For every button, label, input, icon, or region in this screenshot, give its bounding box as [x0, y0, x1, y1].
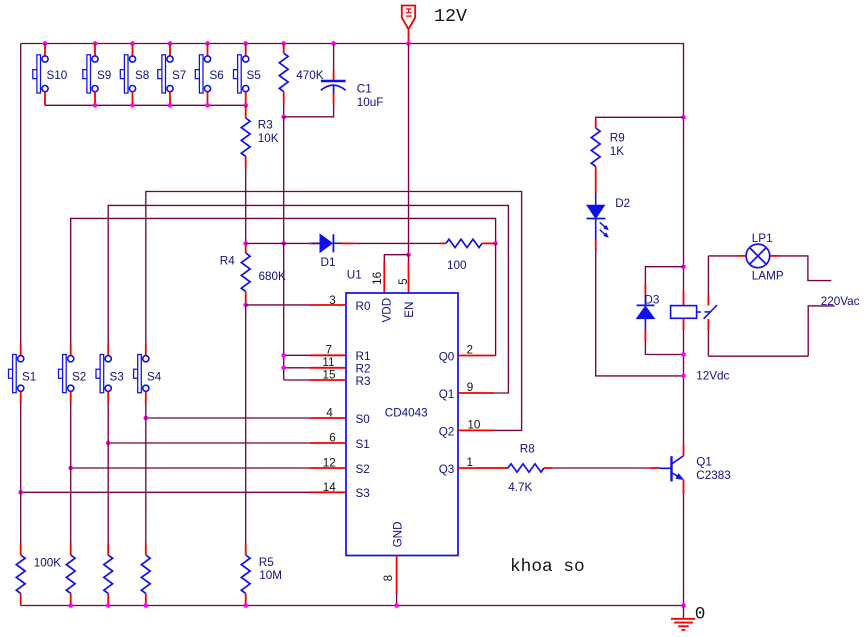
wire R4 to R5: [245, 305, 247, 543]
resistor R4: [241, 253, 250, 291]
svg-text:10K: 10K: [258, 132, 279, 145]
wire 470K to C1 node: [283, 103, 285, 117]
junction emitter at ground rail: [681, 603, 686, 608]
junction D3 branch top: [681, 264, 686, 269]
wire D3 bottom to relay bottom: [645, 342, 683, 355]
pin 12 S2 stub: [310, 467, 346, 469]
junction R1 branch: [281, 353, 286, 358]
pin S4 top: [145, 345, 147, 356]
wire supply node to EN pin: [408, 255, 410, 262]
pin D1 cathode: [342, 242, 354, 244]
junction S5 top at rail: [243, 41, 248, 46]
diode D1: [312, 234, 343, 252]
wire C1 bottom to 470K node: [284, 105, 334, 117]
wire bus S2-Q0: [71, 218, 496, 344]
pin S1 bottom: [20, 391, 22, 403]
svg-text:1K: 1K: [610, 145, 625, 158]
junction S8 top at rail: [130, 41, 135, 46]
pin R4 bottom: [245, 291, 247, 305]
svg-text:S3: S3: [110, 371, 124, 384]
svg-text:Q2: Q2: [439, 425, 455, 438]
wire S3 to S1 pin: [108, 442, 310, 444]
pin S3 top: [107, 345, 109, 356]
svg-text:Q1: Q1: [439, 388, 455, 401]
pin pulldown S2 top: [70, 543, 72, 555]
svg-text:R0: R0: [356, 300, 371, 313]
pushbutton switch S9: [83, 55, 98, 93]
wire right main vertical upper: [683, 44, 685, 291]
wire D2 down to 12Vdc node: [596, 250, 684, 376]
pushbutton switch S5: [234, 55, 249, 93]
resistor R9: [591, 128, 600, 166]
svg-text:R2: R2: [356, 363, 371, 376]
wire bus S3-Q1: [108, 205, 508, 393]
junction 12Vdc node: [681, 374, 686, 379]
pin pulldown S2 bottom: [70, 593, 72, 605]
junction pulldown S2 at rail: [68, 603, 73, 608]
svg-text:S4: S4: [147, 371, 162, 384]
svg-text:C2383: C2383: [696, 469, 730, 482]
junction C1 top at rail: [331, 41, 336, 46]
svg-text:S1: S1: [356, 438, 370, 451]
wire relay top to D3 top: [645, 267, 683, 283]
pin S10 top: [44, 44, 46, 56]
pushbutton switch S3: [96, 355, 111, 393]
pin relay coil bottom: [683, 318, 685, 330]
junction S7 bottom wire: [168, 103, 173, 108]
pin 470K bottom: [283, 92, 285, 103]
svg-text:100: 100: [447, 259, 467, 272]
pin 16 VDD: [383, 262, 385, 293]
LED D2: [587, 193, 609, 240]
wire bus node down to Q0: [494, 243, 496, 355]
svg-text:VDD: VDD: [381, 298, 394, 323]
pin D3 anode: [644, 330, 646, 342]
wire right main vertical mid (relay to Q1): [683, 330, 685, 444]
svg-text:R9: R9: [610, 132, 625, 145]
pin 8 GND stub: [396, 556, 398, 595]
pin S7 bottom: [169, 92, 171, 106]
resistor pulldown S4: [141, 555, 150, 593]
svg-text:3: 3: [329, 294, 336, 307]
resistor R5: [241, 555, 250, 593]
wire supply node to VDD pin: [384, 255, 408, 262]
svg-text:khoa so: khoa so: [510, 557, 585, 577]
pin S6 bottom: [207, 92, 209, 106]
wire lamp loop left lower: [707, 330, 709, 356]
svg-text:EN: EN: [403, 302, 416, 318]
pushbutton switch S10: [33, 55, 48, 93]
pin 1 Q3 stub: [458, 467, 494, 469]
junction S4 column at S0 wire: [143, 416, 148, 421]
capacitor C1: [321, 81, 346, 93]
wire R1 branch: [284, 354, 310, 356]
pin Q1 emitter: [683, 480, 685, 494]
svg-text:Q3: Q3: [439, 463, 455, 476]
pin pulldown S3 bottom: [107, 593, 109, 605]
resistor pulldown S3: [104, 555, 113, 593]
svg-text:D1: D1: [321, 256, 336, 269]
svg-text:D2: D2: [615, 197, 630, 210]
svg-text:C1: C1: [357, 82, 372, 95]
transistor Q1: [660, 456, 684, 482]
junction R4 bottom / pin3 wire: [243, 303, 248, 308]
svg-text:1: 1: [467, 456, 474, 469]
svg-text:S8: S8: [135, 69, 149, 82]
svg-text:15: 15: [322, 368, 336, 381]
pin D2 cathode: [595, 240, 597, 250]
pin contact bottom: [707, 319, 709, 330]
pin 6 S1 stub: [310, 442, 346, 444]
svg-text:12: 12: [323, 457, 336, 470]
pin 10 Q2 stub: [458, 429, 494, 431]
pin D1 anode: [309, 242, 320, 244]
pin 2 Q0 stub: [458, 355, 494, 357]
wire bus S4-Q2: [146, 192, 522, 431]
pin S6 top: [207, 44, 209, 56]
svg-text:10M: 10M: [259, 569, 282, 582]
pushbutton switch S8: [120, 55, 135, 93]
pin 14 S3 stub: [310, 491, 346, 493]
wire 12V rail down to U1 supply node: [408, 44, 410, 255]
junction pulldown S3 at rail: [106, 603, 111, 608]
wire lamp loop right upper: [778, 256, 831, 281]
svg-text:14: 14: [323, 481, 337, 494]
pin 5 EN: [408, 262, 410, 293]
pin S5 top: [245, 44, 247, 56]
svg-text:S2: S2: [72, 371, 86, 384]
svg-text:2: 2: [467, 343, 474, 356]
pin relay coil top: [683, 291, 685, 306]
svg-text:4: 4: [326, 407, 333, 420]
pin S7 top: [169, 44, 171, 56]
pin 100 right: [482, 242, 496, 244]
wire right vertical to R9: [596, 116, 684, 118]
wire S1 down to pulldown resistor: [20, 403, 22, 543]
pin LP1 left: [738, 255, 746, 257]
pin R3 bottom: [245, 156, 247, 168]
pin S2 bottom: [70, 391, 72, 403]
svg-text:D3: D3: [644, 294, 659, 307]
power symbol 12V pennant: [402, 6, 415, 30]
pin pulldown S4 top: [145, 543, 147, 555]
pin 3 R0 stub: [310, 304, 346, 306]
junction 12V at rail: [406, 41, 411, 46]
svg-text:S0: S0: [356, 413, 371, 426]
pin S9 bottom: [94, 92, 96, 106]
svg-text:0: 0: [695, 605, 706, 625]
pin S10 bottom: [44, 92, 46, 106]
wire lamp left to contact corner: [708, 255, 738, 257]
pin S3 bottom: [107, 391, 109, 403]
wire left outer vertical (rail to S1): [20, 44, 22, 345]
svg-text:S6: S6: [210, 69, 224, 82]
svg-text:6: 6: [329, 432, 336, 445]
svg-text:4.7K: 4.7K: [508, 481, 532, 494]
junction S9 bottom wire: [93, 103, 98, 108]
wire lamp loop bottom: [708, 355, 808, 357]
svg-text:220Vac: 220Vac: [821, 295, 860, 308]
junction S8 bottom wire: [130, 103, 135, 108]
wire rail to ground symbol: [683, 606, 685, 619]
svg-text:7: 7: [325, 343, 332, 356]
wire rail to C1: [333, 44, 335, 71]
svg-text:R1: R1: [356, 350, 371, 363]
wire R3 branch: [284, 379, 310, 381]
junction S10 top at rail: [43, 41, 48, 46]
wire 470K node down to R-pins bus: [283, 117, 285, 244]
pin Q1 collector: [683, 444, 685, 456]
wire S2 to S2 pin: [71, 467, 310, 469]
op-amp U1 CD4043 body: [346, 293, 458, 556]
pin R3 top: [245, 105, 247, 118]
wire right main vertical lower (Q1 emitter to ground rail): [683, 494, 685, 606]
svg-text:R8: R8: [520, 443, 535, 456]
wire lamp loop right lower: [808, 306, 834, 356]
pin 11 R2 stub: [310, 367, 346, 369]
pin R9 bottom: [595, 166, 597, 193]
junction S7 top at rail: [168, 41, 173, 46]
pin S2 top: [70, 345, 72, 356]
relay right pin dash: [697, 311, 701, 313]
pushbutton switch S1: [9, 355, 24, 393]
svg-text:470K: 470K: [296, 69, 324, 82]
wire R4 node to pin3: [246, 304, 310, 306]
svg-text:10uF: 10uF: [357, 96, 384, 109]
pin R5 top: [245, 543, 247, 555]
wire S4 to S0 pin: [146, 417, 310, 419]
pushbutton switch S2: [59, 355, 74, 393]
svg-text:S7: S7: [172, 69, 186, 82]
pin S4 bottom: [145, 391, 147, 403]
pin S1 top: [20, 345, 22, 356]
pin R8 right: [544, 467, 552, 469]
wire S2 down to pulldown resistor: [70, 403, 72, 543]
junction S1 column at S3 wire: [18, 490, 23, 495]
wire R3 to D1 node: [245, 168, 247, 243]
junction bus at 100 resistor output: [493, 241, 498, 246]
pin 470K top: [283, 44, 285, 54]
pin S5 bottom: [245, 92, 247, 106]
svg-text:680K: 680K: [259, 270, 287, 283]
svg-text:Q0: Q0: [439, 350, 455, 363]
wire R2 branch: [284, 367, 310, 369]
svg-text:100K: 100K: [34, 557, 62, 570]
junction R9 branch at right vertical: [681, 115, 686, 120]
wire bottom ground rail: [21, 605, 684, 607]
pushbutton switch S4: [134, 355, 149, 393]
pin pulldown S4 bottom: [145, 593, 147, 605]
junction R5 at ground rail: [243, 603, 248, 608]
svg-text:U1: U1: [347, 268, 362, 281]
junction 470K top at rail: [281, 41, 286, 46]
svg-text:CD4043: CD4043: [385, 407, 428, 420]
wire GND pin to rail: [396, 594, 398, 606]
svg-text:5: 5: [397, 278, 410, 285]
svg-text:11: 11: [322, 356, 334, 369]
svg-text:9: 9: [467, 381, 474, 394]
svg-text:R3: R3: [258, 118, 273, 131]
pin 7 R1 stub: [310, 354, 346, 356]
pin 15 R3 stub: [310, 379, 346, 381]
svg-text:10: 10: [467, 418, 481, 431]
pin S8 bottom: [132, 92, 134, 106]
svg-text:R4: R4: [220, 254, 235, 267]
svg-text:S10: S10: [47, 69, 68, 82]
pin LP1 right: [770, 255, 778, 257]
lamp LP1: [746, 244, 770, 268]
junction S5 bottom / R3 top: [243, 103, 248, 108]
junction S6 bottom wire: [205, 103, 210, 108]
junction S2 column at S2 wire: [68, 466, 73, 471]
wire below S10-S5 row: [45, 104, 246, 106]
svg-text:S2: S2: [356, 463, 370, 476]
pin S8 top: [132, 44, 134, 56]
svg-text:S3: S3: [356, 487, 370, 500]
pin pulldown S1 bottom: [20, 593, 22, 605]
pushbutton switch S7: [158, 55, 173, 93]
junction GND at rail: [394, 603, 399, 608]
junction 470K line at D1 anode wire: [281, 241, 286, 246]
svg-text:12V: 12V: [434, 7, 467, 27]
ground symbol 0: [671, 619, 695, 630]
pin C1 top: [333, 71, 335, 81]
svg-text:GND: GND: [392, 521, 405, 547]
svg-text:S5: S5: [247, 69, 262, 82]
wire lamp loop left upper: [707, 256, 709, 295]
wire D1 to resistor 100: [354, 242, 440, 244]
junction 470K/C1 node: [281, 114, 286, 119]
svg-text:12Vdc: 12Vdc: [696, 370, 729, 383]
svg-text:S9: S9: [97, 69, 111, 82]
pin D3 cathode: [644, 283, 646, 296]
pin pulldown S3 top: [107, 543, 109, 555]
wire S3 down to pulldown resistor: [107, 403, 109, 543]
resistor pulldown S2: [66, 555, 75, 593]
junction S6 top at rail: [205, 41, 210, 46]
pin S9 top: [94, 44, 96, 56]
svg-text:Q1: Q1: [696, 456, 712, 469]
wire 470K line to R3 pin corner: [283, 243, 285, 380]
wire top 12V rail: [21, 43, 684, 45]
junction VDD/EN supply node: [406, 252, 411, 257]
junction S3 column at S1 wire: [106, 441, 111, 446]
resistor R8: [508, 464, 544, 472]
relay contact: [704, 305, 717, 319]
pushbutton switch S6: [195, 55, 210, 93]
svg-text:LP1: LP1: [752, 232, 773, 245]
svg-text:S1: S1: [22, 371, 36, 384]
pin R5 bottom: [245, 593, 247, 605]
resistor 470K: [279, 53, 288, 91]
resistor pulldown S1 100K: [16, 555, 25, 593]
pin 100 left: [440, 242, 446, 244]
junction R2 branch: [281, 365, 286, 370]
junction S9 top at rail: [93, 41, 98, 46]
pin C1 bottom: [333, 93, 335, 105]
pin 9 Q1 stub: [458, 392, 494, 394]
pin 4 S0 stub: [310, 417, 346, 419]
svg-text:R3: R3: [356, 375, 371, 388]
svg-text:LAMP: LAMP: [752, 270, 784, 283]
pin pulldown S1 top: [20, 543, 22, 555]
pin R9 top: [595, 118, 597, 129]
junction D3 branch bottom: [681, 352, 686, 357]
junction pulldown S4 at rail: [143, 603, 148, 608]
junction R3/R4/D1 anode node: [243, 241, 248, 246]
pin 12V symbol to rail: [408, 29, 410, 43]
wire R8 to Q1 base: [552, 467, 650, 469]
diode D3: [637, 296, 655, 331]
resistor R3: [241, 118, 250, 156]
wire S1 to S3 pin: [21, 491, 310, 493]
wire S4 down to pulldown resistor: [145, 403, 147, 543]
relay coil K1: [671, 306, 697, 319]
pin R4 top: [245, 243, 247, 253]
pin contact top: [707, 295, 709, 306]
pin Q1 base: [650, 467, 660, 469]
wire D1 anode from R3/R4 node: [246, 242, 309, 244]
svg-text:16: 16: [371, 272, 384, 285]
svg-text:R5: R5: [259, 556, 274, 569]
resistor 100: [446, 239, 482, 247]
pin R8 left: [494, 467, 508, 469]
svg-text:8: 8: [382, 575, 395, 582]
